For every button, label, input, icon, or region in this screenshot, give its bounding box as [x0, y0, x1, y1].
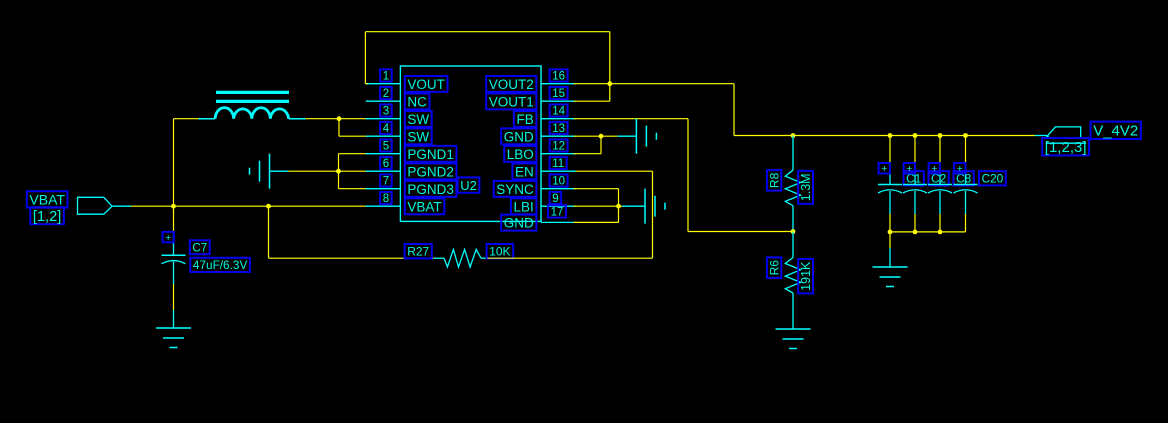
- pin 9 stub: [541, 205, 576, 207]
- node capgnd junction3: [938, 230, 943, 235]
- svg-text:C20: C20: [982, 172, 1004, 186]
- svg-text:[1,2,3]: [1,2,3]: [1045, 139, 1087, 156]
- pin number 11: [550, 157, 567, 169]
- svg-text:+: +: [881, 163, 887, 175]
- wire FB: [574, 118, 688, 120]
- capacitor C8: [939, 136, 941, 167]
- label V_4V2: [1091, 122, 1141, 139]
- pin number 9: [550, 192, 562, 204]
- pin number 3: [380, 104, 392, 116]
- svg-text:PGND1: PGND1: [407, 147, 454, 162]
- svg-text:PGND2: PGND2: [407, 164, 454, 179]
- svg-text:R6: R6: [767, 260, 781, 276]
- svg-text:17: 17: [551, 207, 564, 219]
- pin 16 stub: [541, 83, 576, 85]
- pin number 15: [550, 87, 568, 99]
- pin name VOUT2 (pin 16): [486, 76, 536, 92]
- capacitor C20: [965, 136, 967, 167]
- pin 7 stub: [366, 188, 401, 190]
- svg-text:PGND3: PGND3: [407, 182, 454, 197]
- label C1 plus: [879, 163, 890, 174]
- wire to PGND3: [339, 188, 368, 190]
- svg-text:+: +: [931, 163, 937, 175]
- resistor R27: [434, 257, 444, 259]
- pin 8 stub: [366, 205, 401, 207]
- svg-text:+: +: [165, 232, 171, 244]
- svg-text:VOUT: VOUT: [407, 77, 445, 92]
- svg-text:13: 13: [552, 123, 565, 135]
- pin number 4: [380, 122, 392, 134]
- pin 1 stub: [366, 83, 401, 85]
- label VBAT: [27, 191, 68, 207]
- ground below C7: [173, 310, 175, 328]
- node GND13 junction: [599, 134, 604, 139]
- pin name EN (pin 11): [512, 163, 536, 179]
- label R27: [405, 244, 432, 258]
- node SW junction: [337, 116, 342, 121]
- svg-text:+: +: [906, 163, 912, 175]
- pin 4 stub: [366, 135, 401, 137]
- pin number 12: [550, 139, 568, 151]
- wire PGND to pins: [288, 170, 367, 172]
- label C2: [929, 171, 949, 185]
- svg-text:FB: FB: [517, 112, 534, 127]
- svg-text:1.3M: 1.3M: [799, 173, 813, 201]
- node FB junction: [791, 229, 796, 234]
- pin number 17: [548, 205, 566, 217]
- svg-text:12: 12: [552, 141, 565, 153]
- label C7 value: [190, 258, 250, 272]
- pin 5 stub: [366, 153, 401, 155]
- pin number 5: [380, 139, 392, 151]
- wire inductor left vertical: [173, 119, 175, 207]
- pin number 7: [380, 174, 392, 186]
- svg-text:VOUT1: VOUT1: [489, 94, 534, 109]
- resistor R8: [792, 136, 794, 171]
- node rail C20: [963, 133, 968, 138]
- capacitor C7: [173, 234, 175, 255]
- pin name GND (pin 17): [501, 215, 536, 231]
- svg-text:SYNC: SYNC: [496, 182, 534, 197]
- svg-text:16: 16: [552, 71, 565, 83]
- wire junction down to R27: [268, 206, 270, 258]
- label C20 plus: [954, 163, 965, 174]
- label R6: [767, 257, 781, 278]
- svg-text:3: 3: [383, 106, 389, 118]
- capacitor C2: [914, 136, 916, 167]
- pin 11 stub: [541, 170, 576, 172]
- node rail R8: [791, 133, 796, 138]
- inductor L1: [198, 118, 215, 120]
- label R8 value: [798, 171, 813, 204]
- label [1,2,3]: [1042, 138, 1089, 155]
- node rail C8: [938, 133, 943, 138]
- svg-text:6: 6: [383, 158, 389, 170]
- capacitor C1: [889, 136, 891, 167]
- node VBAT-L junction: [171, 204, 176, 209]
- wire junction to C7: [173, 206, 175, 234]
- node capgnd junction2: [913, 230, 918, 235]
- svg-text:8: 8: [383, 193, 389, 205]
- pin name GND (pin 13): [501, 128, 536, 144]
- pin 14 stub: [541, 118, 576, 120]
- pin 6 stub: [366, 170, 401, 172]
- pin name PGND3 (pin 7): [405, 181, 457, 197]
- wire VBAT port to junction: [131, 205, 174, 207]
- resistor R6: [792, 232, 794, 258]
- pin name PGND2 (pin 6): [405, 163, 457, 179]
- wire SYNC down to GND17: [574, 188, 619, 190]
- pin number 16: [550, 69, 568, 81]
- pin number 8: [380, 192, 392, 204]
- svg-text:VBAT: VBAT: [407, 199, 441, 214]
- label C7 plus: [163, 232, 174, 243]
- svg-text:C7: C7: [192, 242, 207, 254]
- ground PGND (rotated left): [269, 154, 271, 189]
- IC U2 body: [400, 66, 541, 221]
- svg-text:VBAT: VBAT: [29, 191, 65, 207]
- wire VOUT pin1 to loop: [365, 83, 367, 85]
- pin 2 stub: [366, 100, 401, 102]
- ground LBI (rotated right): [622, 205, 645, 207]
- pin 13 stub: [541, 135, 576, 137]
- svg-text:[1,2]: [1,2]: [33, 209, 61, 225]
- label R6 value: [798, 259, 813, 293]
- wire capbank to ground: [889, 232, 891, 248]
- svg-text:U2: U2: [460, 178, 477, 193]
- pin name VOUT1 (pin 15): [486, 94, 536, 110]
- node VBAT-R27 junction: [266, 204, 271, 209]
- svg-text:R8: R8: [767, 172, 781, 188]
- label C20: [979, 171, 1006, 185]
- svg-text:+: +: [957, 163, 963, 175]
- wire GND pin13: [574, 135, 601, 137]
- svg-text:47uF/6.3V: 47uF/6.3V: [193, 258, 248, 272]
- svg-text:7: 7: [383, 176, 389, 188]
- pin number 2: [380, 87, 392, 99]
- pin name VBAT (pin 8): [405, 198, 445, 214]
- svg-text:1: 1: [383, 71, 389, 83]
- pin name VOUT (pin 1): [405, 76, 448, 92]
- pin 17 stub: [541, 221, 576, 223]
- svg-text:GND: GND: [504, 216, 534, 231]
- wire LBI to ground lead: [574, 205, 623, 207]
- node rail C1: [888, 133, 893, 138]
- node PGND junction: [336, 169, 341, 174]
- svg-text:14: 14: [552, 106, 565, 118]
- svg-text:EN: EN: [515, 164, 534, 179]
- svg-text:15: 15: [552, 88, 565, 100]
- svg-text:GND: GND: [504, 129, 534, 144]
- pin 12 stub: [541, 153, 576, 155]
- pin number 1: [380, 69, 392, 81]
- svg-text:VOUT2: VOUT2: [489, 77, 534, 92]
- pin name FB (pin 14): [514, 111, 537, 127]
- svg-text:10K: 10K: [489, 245, 510, 259]
- port VBAT: [78, 197, 113, 214]
- wire SW junction down: [338, 119, 340, 137]
- pin 15 stub: [541, 100, 576, 102]
- pin number 13: [550, 122, 568, 134]
- pin 10 stub: [541, 188, 576, 190]
- wire R27 to EN: [488, 257, 653, 259]
- pin name SW (pin 4): [405, 128, 432, 144]
- svg-text:5: 5: [383, 141, 389, 153]
- pin name PGND1 (pin 5): [405, 146, 457, 162]
- svg-text:V_4V2: V_4V2: [1093, 123, 1138, 140]
- node capgnd junction1: [888, 230, 893, 235]
- wire GND13 to LBO12: [600, 136, 602, 154]
- svg-text:9: 9: [552, 193, 558, 205]
- label R27 value: [487, 244, 514, 258]
- pin name NC (pin 2): [405, 94, 430, 110]
- wire output rail: [734, 135, 1035, 137]
- label C8 plus: [929, 163, 940, 174]
- svg-text:191K: 191K: [799, 261, 813, 291]
- label C7: [190, 240, 210, 254]
- label C1: [904, 171, 924, 185]
- pin number 6: [380, 157, 392, 169]
- pin number 10: [550, 174, 568, 186]
- ground below R6: [776, 328, 811, 330]
- node rail C2: [913, 133, 918, 138]
- pin 3 stub: [366, 118, 401, 120]
- label C8: [954, 171, 974, 185]
- wire to PGND1: [339, 153, 368, 155]
- svg-text:SW: SW: [407, 129, 429, 144]
- svg-text:11: 11: [552, 158, 564, 170]
- label [1,2]: [30, 207, 64, 224]
- port V_4V2: [1047, 127, 1081, 138]
- wire VBAT rail: [174, 205, 368, 207]
- wire C7 to ground: [173, 284, 175, 310]
- label R8: [767, 170, 781, 191]
- node LBI junction: [616, 204, 621, 209]
- svg-text:LBI: LBI: [514, 199, 534, 214]
- node VOUT2 junction: [607, 81, 612, 86]
- svg-text:4: 4: [383, 123, 390, 135]
- svg-text:2: 2: [383, 88, 389, 100]
- pin name SYNC (pin 10): [494, 181, 537, 197]
- wire cap bank bottom: [890, 231, 966, 233]
- label C2 plus: [904, 163, 915, 174]
- svg-text:LBO: LBO: [507, 147, 534, 162]
- pin name LBO (pin 12): [504, 146, 536, 162]
- pin name LBI (pin 9): [511, 198, 537, 214]
- ground GND13 (rotated right): [618, 135, 637, 137]
- wire inductor to SW pins: [306, 118, 368, 120]
- svg-text:10: 10: [552, 176, 565, 188]
- ground below cap bank: [889, 248, 891, 267]
- wire PGND vertical tie: [338, 154, 340, 189]
- svg-text:R27: R27: [407, 245, 429, 259]
- label U2: [458, 177, 480, 192]
- wire rail to port: [1035, 135, 1047, 137]
- pin number 14: [550, 104, 568, 116]
- svg-text:NC: NC: [407, 94, 427, 109]
- wire junction to ground lead: [601, 135, 618, 137]
- wire pin16 out: [574, 83, 610, 85]
- port strike line: [1046, 142, 1086, 144]
- pin name SW (pin 3): [405, 111, 432, 127]
- svg-text:SW: SW: [407, 112, 429, 127]
